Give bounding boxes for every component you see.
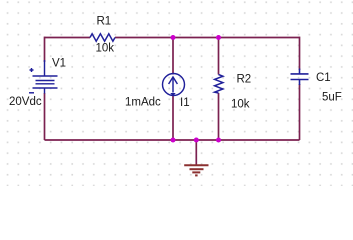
- svg-text:C1: C1: [316, 72, 331, 84]
- svg-text:V1: V1: [52, 58, 66, 70]
- label 5uF: [322, 92, 342, 104]
- label 20Vdc: [9, 96, 42, 108]
- svg-text:5uF: 5uF: [322, 92, 342, 104]
- wire ground stub: [195, 140, 197, 165]
- junction at I1 bottom: [171, 138, 176, 143]
- svg-text:10k: 10k: [231, 99, 250, 111]
- svg-text:20Vdc: 20Vdc: [9, 96, 42, 108]
- wire top from R1 to C1 corner: [115, 37, 300, 39]
- current source I1: [163, 74, 185, 97]
- resistor R2: [215, 75, 223, 94]
- wire R2 top lead: [218, 38, 220, 75]
- wire right vertical from top corner to C1: [299, 37, 301, 70]
- svg-text:R2: R2: [237, 74, 252, 86]
- ground: [184, 165, 208, 175]
- label I1: [180, 97, 190, 109]
- label 10k (R2 value): [231, 99, 250, 111]
- wire bottom rail: [45, 139, 300, 141]
- capacitor C1: [291, 69, 309, 86]
- wire R2 bottom lead: [218, 93, 220, 140]
- junction at R2 top: [216, 35, 221, 40]
- resistor R1: [90, 34, 115, 41]
- wire I1 bottom lead: [172, 95, 174, 140]
- label 1mAdc: [125, 97, 161, 109]
- label 10k (R1 value): [96, 43, 115, 55]
- svg-text:I1: I1: [180, 97, 190, 109]
- svg-text:1mAdc: 1mAdc: [125, 97, 161, 109]
- label V1: [52, 58, 66, 70]
- wire left vertical from V1 to bottom corner: [44, 93, 46, 140]
- voltage source V1 battery symbol: [29, 60, 58, 94]
- wire I1 top lead: [172, 38, 174, 75]
- junction at R2 bottom: [216, 138, 221, 143]
- wire right vertical from C1 to bottom rail: [299, 84, 301, 140]
- junction at I1 top: [171, 35, 176, 40]
- wire left vertical from top corner to V1: [44, 37, 46, 62]
- label R2: [237, 74, 252, 86]
- svg-text:10k: 10k: [96, 43, 115, 55]
- junction at ground: [194, 138, 199, 143]
- label R1: [97, 16, 112, 28]
- label C1: [316, 72, 331, 84]
- svg-text:R1: R1: [97, 16, 112, 28]
- wire top from V1 to R1: [45, 37, 91, 39]
